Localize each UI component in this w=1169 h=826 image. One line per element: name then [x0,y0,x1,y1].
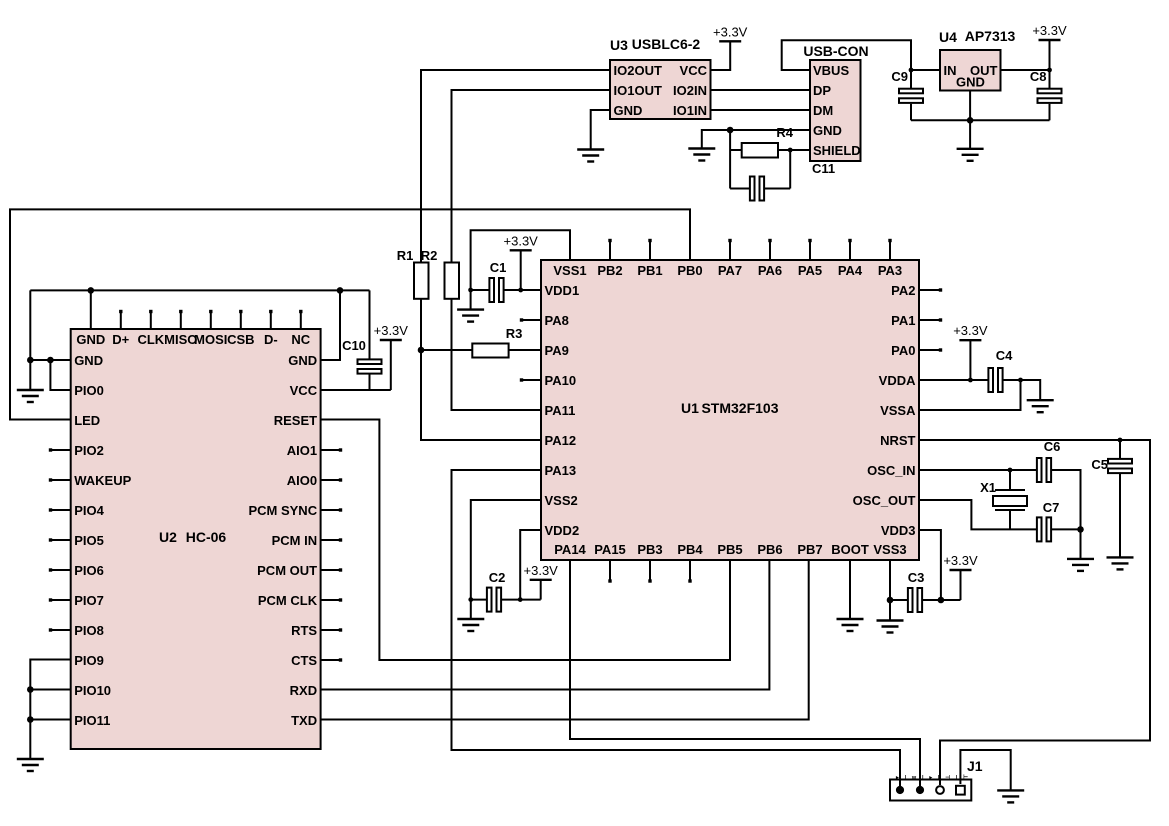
wire PIO11 tap [30,719,70,721]
svg-text:GND: GND [74,353,103,368]
resistor R1 [414,263,429,299]
capacitor C9 [899,89,923,103]
svg-text:PB4: PB4 [677,542,703,557]
capacitor C6 [1037,458,1051,482]
svg-text:PB3: PB3 [637,542,662,557]
junction C3/VDD3 [938,597,945,604]
junction C2 left [468,597,473,602]
U1 top pin stub PB1 [649,240,651,260]
wire SHIELD line [778,149,810,151]
svg-text:VSSA: VSSA [880,403,916,418]
U2 left pin stub PIO5 [50,539,71,541]
ground C6/C7 [1067,559,1094,571]
capacitor C2 [487,588,501,612]
svg-text:PA8: PA8 [545,313,569,328]
capacitor C11 [750,177,764,201]
svg-text:VDDA: VDDA [879,373,916,388]
capacitor C1 [489,278,503,302]
ground J1 [997,790,1024,802]
svg-text:PA5: PA5 [798,263,822,278]
svg-text:OSC_OUT: OSC_OUT [853,493,916,508]
U2 left pin stub PIO8 [50,629,71,631]
svg-text:GND: GND [288,353,317,368]
svg-text:PA1: PA1 [891,313,915,328]
U2 top pin stub MOSI [210,311,212,329]
svg-text:PCM CLK: PCM CLK [258,593,318,608]
wire C7 right lead [1051,528,1080,530]
ground VSS3 [877,621,904,633]
svg-text:▸|w|▸|⊣|⊢: ▸|w|▸|⊣|⊢ [895,773,968,781]
svg-text:U4: U4 [939,29,957,45]
wire vertical GND riser [29,290,31,390]
svg-text:+3.3V: +3.3V [504,233,539,248]
svg-text:+3.3V: +3.3V [524,563,559,578]
J1 pin 1 contact [896,786,904,794]
U2 left pin stub PIO7 [50,599,71,601]
wire PIO10 tap [30,689,70,691]
wire +3.3V lead VDD2 [540,580,542,600]
svg-text:PB5: PB5 [717,542,742,557]
svg-text:MOSI: MOSI [194,332,227,347]
ground C2 [457,619,484,631]
U1 bottom pin stub PB3 [649,560,651,582]
wire +3.3V lead VDD1 [520,250,522,290]
svg-text:RESET: RESET [274,413,317,428]
junction X1 top [1008,468,1013,473]
svg-text:USB-CON: USB-CON [803,43,868,59]
wire VSS2 to C2 [471,500,541,619]
IC body U2 HC-06 [71,329,321,749]
junction VDDA +3.3V [968,378,973,383]
svg-text:VBUS: VBUS [813,63,849,78]
wire RESET to PB5 [321,420,730,661]
wire DM line [711,109,811,111]
capacitor C5 [1108,459,1132,473]
svg-text:GND: GND [813,123,842,138]
wire X1 top stub [1009,470,1011,490]
junction GND/PIO0 [47,357,54,364]
U2 top pin stub CLK [150,311,152,329]
ground VSS1/C1 [457,310,484,322]
wire C5 top lead [1119,440,1121,458]
IC body U4 AP7313 [940,50,1001,91]
svg-text:PIO2: PIO2 [74,443,104,458]
wire VDD3 drop [919,530,941,600]
junction VDD2/C2 [518,597,523,602]
capacitor C10 [358,359,382,373]
svg-text:VSS2: VSS2 [545,493,578,508]
svg-text:VDD3: VDD3 [881,523,916,538]
svg-text:+3.3V: +3.3V [374,323,409,338]
power +3.3V at U2 VCC [374,323,409,340]
U1 bottom pin stub PA15 [609,560,611,582]
wire U3 GND [591,110,610,150]
svg-text:BOOT: BOOT [831,542,869,557]
U2 right pin stub PCM OUT [321,569,341,571]
U1 bottom pin stub PB4 [689,560,691,582]
U2 left pin stub WAKEUP [50,479,71,481]
wire C11 right riser [789,150,791,189]
U1 left pin stub PA8 [521,319,541,321]
wire NRST to J1 pin3 [919,440,1150,785]
svg-text:PIO6: PIO6 [74,563,104,578]
U2 left pin stub PIO4 [50,509,71,511]
junction top GND pin [88,287,95,294]
svg-text:PCM SYNC: PCM SYNC [248,503,317,518]
wire IO1OUT to R2 top [452,90,611,263]
wire VDD2 drop [520,530,541,600]
svg-text:PIO8: PIO8 [74,623,104,638]
U2 right pin stub AIO0 [321,479,341,481]
U1 top pin stub PB2 [609,240,611,260]
svg-text:PB2: PB2 [597,263,622,278]
wire C6 right lead [1051,470,1080,559]
U2 right pin stub CTS [321,659,341,661]
svg-text:+3.3V: +3.3V [1032,23,1067,38]
svg-text:C9: C9 [891,69,908,84]
svg-text:R1: R1 [397,248,414,263]
svg-text:LED: LED [74,413,100,428]
svg-text:SHIELD: SHIELD [813,143,861,158]
wire U4 GND lead [969,91,971,149]
power +3.3V at U3 VCC [713,24,748,41]
svg-text:PIO9: PIO9 [74,653,104,668]
svg-text:VSS3: VSS3 [873,542,906,557]
svg-text:CTS: CTS [291,653,317,668]
capacitor C4 [988,368,1002,392]
svg-text:PIO11: PIO11 [74,713,110,728]
U1 left pin stub PA10 [521,379,541,381]
junction U4 GND [967,117,974,124]
wire C1 left lead [471,289,490,291]
wire +3.3V lead VDD3 [960,570,962,600]
wire U2 VCC line [321,389,391,391]
svg-text:VDD1: VDD1 [545,283,580,298]
U1 right pin stub PA2 [919,289,941,291]
wire R2 bottom to PA11 [452,299,542,410]
U2 right pin stub PCM CLK [321,599,341,601]
svg-text:PIO5: PIO5 [74,533,104,548]
svg-text:IO2OUT: IO2OUT [614,63,662,78]
svg-text:C11: C11 [812,161,835,176]
wire PIO0 drop [50,360,70,390]
wire R4/C11 left riser [729,130,731,189]
wire +3.3V lead VDDA [969,340,971,380]
svg-text:C4: C4 [996,348,1013,363]
junction GND riser [27,357,34,364]
svg-text:U2: U2 [159,529,177,545]
svg-text:RXD: RXD [290,683,317,698]
wire C11 right lead [764,188,790,190]
wire U4 IN lead [911,69,940,71]
svg-text:X1: X1 [980,480,996,495]
U2 right pin stub AIO1 [321,449,341,451]
U2 left pin stub PIO2 [50,449,71,451]
ground USB-CON [688,149,715,161]
svg-text:U1: U1 [681,400,699,416]
wire OSC_IN line [919,469,1037,471]
wire C1 right to VDD1 [504,289,541,291]
J1 pin 4 contact [956,786,965,795]
wire VSS3 drop [889,560,891,621]
svg-text:PA13: PA13 [545,463,577,478]
ground C4 [1027,400,1054,412]
wire PA13 to J1 pin1 [452,470,901,790]
svg-text:TXD: TXD [291,713,317,728]
wire C5 bottom lead [1119,474,1121,557]
svg-text:PB6: PB6 [757,542,782,557]
svg-text:CSB: CSB [227,332,254,347]
svg-text:C5: C5 [1091,457,1108,472]
svg-text:J1: J1 [967,758,983,774]
junction GND bus / right GND [337,287,344,294]
junction R1/R3 [418,347,425,354]
power +3.3V at VDD2 [524,563,559,580]
svg-text:D-: D- [264,332,278,347]
junction C7/gnd riser [1077,526,1084,533]
svg-text:WAKEUP: WAKEUP [74,473,131,488]
svg-text:PA4: PA4 [838,263,863,278]
wire USB GND line [702,130,810,149]
svg-text:GND: GND [614,103,643,118]
svg-text:PIO10: PIO10 [74,683,111,698]
wire U2 GND left pin to junction [30,359,70,361]
connector body J1 [890,780,971,801]
ground C5 [1107,557,1134,569]
wire C10 top lead [369,290,371,358]
svg-text:C8: C8 [1030,69,1047,84]
U1 top pin stub PA6 [769,240,771,260]
svg-text:VDD2: VDD2 [545,523,580,538]
U2 top pin stub CSB [240,311,242,329]
svg-text:PB7: PB7 [797,542,822,557]
wire +3.3V to C8 [1049,40,1051,89]
svg-text:CLK: CLK [137,332,164,347]
svg-text:GND: GND [76,332,105,347]
svg-text:PA15: PA15 [594,542,626,557]
svg-text:DM: DM [813,103,833,118]
svg-text:VSS1: VSS1 [553,263,586,278]
wire C3 right lead [922,599,960,601]
svg-text:NRST: NRST [880,433,915,448]
svg-text:NC: NC [291,332,310,347]
power +3.3V at VDDA [953,323,988,340]
svg-text:PA10: PA10 [545,373,577,388]
wire IO2OUT to R1 top [421,70,610,263]
J1 pin 3 contact [936,786,944,794]
svg-text:C7: C7 [1043,500,1060,515]
svg-text:PA6: PA6 [758,263,782,278]
U2 right pin stub RTS [321,629,341,631]
capacitor C3 [908,588,922,612]
svg-text:PA11: PA11 [545,403,576,418]
svg-text:OSC_IN: OSC_IN [867,463,915,478]
connector body USB-CON [810,60,861,161]
svg-text:GND: GND [956,75,985,90]
wire VSS1 riser [471,230,570,309]
svg-text:+3.3V: +3.3V [943,553,978,568]
svg-text:C10: C10 [342,338,366,353]
ground U4 [957,149,984,161]
svg-text:AP7313: AP7313 [965,28,1016,44]
svg-text:R2: R2 [421,248,438,263]
wire PA14 to J1 pin2 [570,560,920,790]
wire top GND bus over U2 [30,289,369,291]
junction NRST/C5 [1118,438,1123,443]
wire U4 OUT lead [1001,69,1050,71]
ground U2 GND [17,390,44,402]
svg-text:R3: R3 [506,326,523,341]
junction SHIELD/C11 riser [788,148,793,153]
svg-text:C3: C3 [908,570,925,585]
svg-text:+3.3V: +3.3V [953,323,988,338]
svg-text:AIO0: AIO0 [287,473,317,488]
U2 top pin stub D- [270,311,272,329]
crystal X1 [993,490,1027,510]
ground PIO9-11 [17,759,44,771]
U1 top pin stub PA4 [849,240,851,260]
svg-text:C6: C6 [1044,439,1061,454]
wire DP line [711,89,811,91]
svg-text:PIO7: PIO7 [74,593,104,608]
wire U2 top GND pin [90,290,92,329]
ground U3 [577,150,604,162]
svg-text:PIO0: PIO0 [74,383,104,398]
wire C3 left lead [890,599,908,601]
wire BOOT drop [849,560,851,619]
svg-text:+3.3V: +3.3V [713,24,748,39]
power +3.3V at U4 OUT [1032,23,1067,40]
power +3.3V at VDD3 [943,553,978,570]
wire TXD to PB7 [321,560,809,720]
svg-text:U3: U3 [610,37,628,53]
wire C8 bottom lead [1049,104,1051,121]
svg-text:USBLC6-2: USBLC6-2 [632,36,701,52]
svg-text:C2: C2 [489,570,506,585]
junction C4/VSSA [1018,378,1023,383]
svg-text:PA7: PA7 [718,263,742,278]
svg-text:PA0: PA0 [891,343,915,358]
IC body U3 USBLC6-2 [610,60,711,119]
wire LED net to PB0 [10,209,690,419]
svg-text:PA12: PA12 [545,433,577,448]
wire U3 VCC [711,41,731,70]
svg-text:PCM OUT: PCM OUT [257,563,317,578]
junction PIO11 [27,716,34,723]
wire J1 pin4 to ground [960,750,1010,790]
U2 top pin stub NC [300,311,302,329]
wire R1 bottom to PA12 [421,299,541,440]
wire C10 bottom lead [369,375,371,391]
svg-text:DP: DP [813,83,831,98]
U1 top pin stub PA5 [809,240,811,260]
wire RXD to PB6 [321,560,770,690]
wire R3 left lead [421,349,472,351]
wire U2 right GND pin riser [321,290,340,360]
wire ground bus under U4 [911,119,1050,121]
junction OUT/C8 [1047,68,1052,73]
svg-text:PB1: PB1 [637,263,662,278]
capacitor C8 [1038,89,1062,103]
junction VBUS/IN [909,68,914,73]
U1 right pin stub PA1 [919,319,941,321]
capacitor C7 [1037,517,1051,541]
svg-text:AIO1: AIO1 [287,443,317,458]
svg-text:IO2IN: IO2IN [673,83,707,98]
wire C2 right lead [501,599,541,601]
svg-text:D+: D+ [112,332,129,347]
junction C1 left [468,288,473,293]
svg-text:R4: R4 [776,125,793,140]
ground BOOT [837,619,864,631]
svg-text:PCM IN: PCM IN [272,533,318,548]
svg-text:PA14: PA14 [554,542,586,557]
svg-text:PA2: PA2 [891,283,915,298]
svg-text:C1: C1 [490,260,507,275]
svg-text:PA3: PA3 [878,263,902,278]
junction GND/R4 riser [727,127,734,134]
wire PIO9 group riser [30,660,70,760]
svg-text:VCC: VCC [290,383,318,398]
svg-text:RTS: RTS [291,623,317,638]
U2 top pin stub D+ [120,311,122,329]
U2 left pin stub PIO6 [50,569,71,571]
wire C2 left lead [471,599,487,601]
wire +3.3V lead to VCC [390,340,392,390]
U2 top pin stub MISO [180,311,182,329]
resistor R3 [472,344,508,358]
power +3.3V at VDD1 [504,233,539,250]
IC body U1 STM32F103 [541,260,919,560]
svg-text:HC-06: HC-06 [186,529,227,545]
svg-text:IO1IN: IO1IN [673,103,707,118]
wire R4 left lead [730,149,742,151]
wire OSC_OUT line [919,500,1037,529]
svg-text:MISO: MISO [164,332,197,347]
junction VDD1 +3.3V [518,288,523,293]
wire C4 right lead [1003,380,1041,400]
svg-text:PB0: PB0 [677,263,702,278]
J1 pin 2 contact [916,786,924,794]
wire VDDA line [919,379,988,381]
svg-text:PA9: PA9 [545,343,569,358]
wire C11 left lead [730,188,750,190]
svg-text:STM32F103: STM32F103 [701,400,778,416]
wire R3 right to PA9 [509,349,541,351]
svg-text:IO1OUT: IO1OUT [614,83,662,98]
U1 top pin stub PA7 [729,240,731,260]
U1 top pin stub PA3 [889,240,891,260]
wire VSSA link [919,380,1021,410]
wire VBUS to C9/U4 [782,40,911,88]
resistor R4 [742,143,778,158]
svg-text:IN: IN [944,63,957,78]
resistor R2 [445,263,460,299]
junction PIO10 [27,686,34,693]
U2 right pin stub PCM IN [321,539,341,541]
U2 right pin stub PCM SYNC [321,509,341,511]
svg-text:PIO4: PIO4 [74,503,104,518]
svg-text:VCC: VCC [680,63,708,78]
wire X1 bottom stub [1009,510,1011,529]
junction C3 left [887,597,894,604]
wire C9 bottom lead [910,104,912,121]
U1 right pin stub PA0 [919,349,941,351]
